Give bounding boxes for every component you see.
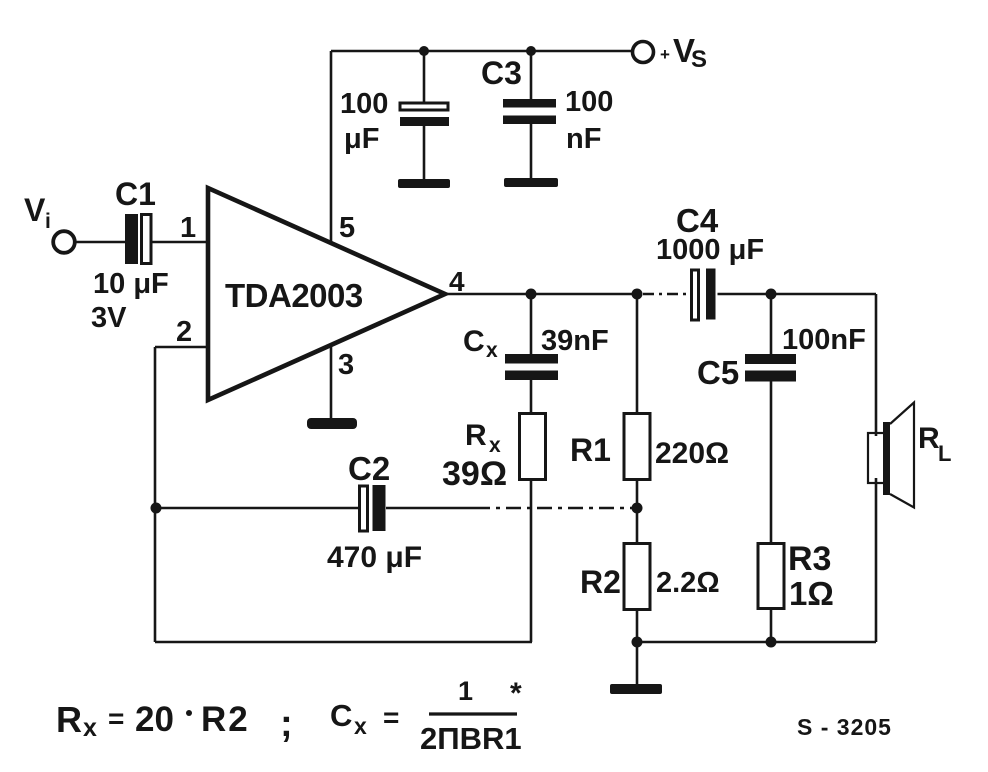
label R2 value 2.2ohm: [656, 567, 720, 599]
pin 5: [339, 212, 355, 244]
label Rx: [465, 419, 501, 457]
svg-text:R: R: [465, 419, 487, 452]
label C2 value 470uF: [327, 541, 422, 574]
wire right vertical to speaker: [875, 294, 878, 642]
node Vi input terminal: [53, 231, 75, 253]
wire dash-dot to C4: [643, 293, 689, 296]
svg-text:R2: R2: [580, 564, 621, 600]
label S-3205: [797, 714, 892, 740]
ground bar under 100uF: [398, 179, 450, 188]
wire pin 2 to left vertical: [155, 346, 207, 349]
label R3 value 1ohm: [789, 575, 834, 612]
wire Rx down to bottom: [530, 480, 533, 642]
label RL: [918, 422, 951, 466]
label C2: [348, 450, 390, 487]
label C4 value 1000uF: [656, 234, 764, 266]
pin 4: [449, 266, 465, 297]
svg-text:10 μF: 10 μF: [93, 268, 169, 300]
svg-text:220Ω: 220Ω: [655, 437, 729, 470]
svg-text:=: =: [383, 702, 399, 733]
capacitor 100uF electrolytic: [400, 51, 449, 180]
svg-text:L: L: [938, 441, 951, 466]
svg-text:;: ;: [280, 703, 293, 745]
wire input to C1: [75, 241, 125, 244]
svg-text:3V: 3V: [91, 302, 127, 334]
label R1 value 220ohm: [655, 437, 729, 470]
svg-text:2ΠBR1: 2ΠBR1: [420, 721, 522, 756]
pin 2: [176, 316, 192, 348]
label C5: [697, 354, 739, 391]
svg-text:1: 1: [458, 676, 473, 706]
op-amp U1 TDA2003 triangle: [208, 188, 445, 400]
label C1 value 10uF: [93, 268, 169, 300]
resistor R3: [758, 544, 784, 609]
junction dot bottom R3: [766, 637, 777, 648]
label Rx value 39ohm: [442, 455, 507, 493]
ground main: [610, 684, 662, 694]
svg-text:x: x: [486, 339, 498, 362]
junction dot output Cx: [526, 289, 537, 300]
formula Rx = 20 R2: [56, 699, 293, 745]
svg-text:C: C: [463, 325, 485, 358]
label R1: [570, 432, 611, 468]
wire output pin 4: [444, 293, 642, 296]
svg-text:C2: C2: [348, 450, 390, 487]
label Cx: [463, 325, 498, 362]
capacitor C1: [125, 214, 151, 264]
label Vi: [24, 192, 51, 233]
svg-text:100: 100: [340, 88, 388, 120]
label R2: [580, 564, 621, 600]
wire pin 3 down: [330, 346, 333, 419]
junction dot R1 R2 C2: [632, 503, 643, 514]
svg-text:39Ω: 39Ω: [442, 455, 507, 493]
svg-text:V: V: [24, 192, 46, 228]
svg-text:C: C: [330, 698, 352, 733]
svg-text:TDA2003: TDA2003: [225, 277, 363, 314]
junction dot output R1: [632, 289, 643, 300]
junction dot bottom R2: [632, 637, 643, 648]
wire R1 branch upper: [636, 294, 639, 414]
svg-text:100nF: 100nF: [782, 324, 866, 356]
wire left vertical feedback: [154, 347, 157, 642]
wire C2 right solid: [386, 507, 475, 510]
ground pin 3: [307, 418, 357, 429]
svg-text:R2: R2: [201, 700, 250, 739]
svg-text:μF: μF: [344, 123, 379, 155]
svg-text:100: 100: [565, 86, 613, 118]
label TDA2003: [225, 277, 363, 314]
svg-text:4: 4: [449, 266, 465, 297]
capacitor C4: [692, 269, 716, 321]
svg-text:5: 5: [339, 212, 355, 244]
svg-text:*: *: [510, 677, 522, 710]
svg-text:2.2Ω: 2.2Ω: [656, 567, 720, 599]
wire feedback to C2: [156, 507, 359, 510]
label C1 value 3V: [91, 302, 127, 334]
pin 3: [338, 349, 354, 381]
wire top supply rail: [331, 50, 633, 53]
svg-text:+: +: [660, 45, 670, 64]
speaker RL: [868, 403, 914, 508]
wire pin 5 up: [330, 51, 333, 243]
label Cx value 39nF: [541, 325, 609, 357]
junction dot top rail C100uF: [419, 46, 429, 56]
junction dot feedback left: [151, 503, 162, 514]
svg-text:R3: R3: [788, 540, 831, 578]
label R3: [788, 540, 831, 578]
capacitor C2: [360, 485, 386, 531]
label C4: [676, 202, 719, 239]
junction dot top rail C3: [526, 46, 536, 56]
wire C4 to node C5: [718, 293, 877, 296]
svg-text:=: =: [108, 703, 124, 734]
wire C1 to pin 1: [151, 241, 207, 244]
capacitor Cx: [505, 294, 558, 414]
label C3: [481, 55, 522, 91]
wire bottom left horizontal: [155, 641, 532, 644]
label 100uF value: [340, 88, 388, 155]
wire R3 down: [770, 608, 773, 642]
svg-text:3: 3: [338, 349, 354, 381]
capacitor C5: [745, 294, 796, 544]
capacitor C3: [503, 51, 556, 178]
wire ground stub: [636, 642, 639, 684]
wire bottom right horizontal: [637, 641, 876, 644]
ground bar under C3: [504, 178, 558, 187]
pin 1: [180, 212, 196, 244]
svg-text:R1: R1: [570, 432, 611, 468]
label C5 value 100nF: [782, 324, 866, 356]
resistor R1: [624, 414, 650, 480]
wire R1 to junction: [636, 479, 639, 544]
svg-text:i: i: [45, 210, 51, 233]
svg-text:x: x: [354, 713, 367, 739]
svg-text:nF: nF: [566, 123, 601, 155]
svg-text:470 μF: 470 μF: [327, 541, 422, 574]
svg-text:1Ω: 1Ω: [789, 575, 834, 612]
svg-text:S: S: [691, 46, 707, 73]
node +Vs supply terminal: [633, 42, 654, 63]
junction dot output C5: [766, 289, 777, 300]
svg-text:x: x: [83, 714, 97, 742]
resistor Rx: [520, 414, 546, 480]
svg-text:C3: C3: [481, 55, 522, 91]
wire C2 dash-dot to R junction: [475, 507, 632, 510]
svg-text:1: 1: [180, 212, 196, 244]
svg-text:R: R: [918, 422, 940, 455]
svg-text:S - 3205: S - 3205: [797, 714, 892, 740]
svg-text:39nF: 39nF: [541, 325, 609, 357]
label C3 value 100nF: [565, 86, 613, 155]
svg-text:C5: C5: [697, 354, 739, 391]
svg-text:1000 μF: 1000 μF: [656, 234, 764, 266]
label C1: [115, 176, 156, 212]
wire R2 down: [636, 609, 639, 642]
svg-text:2: 2: [176, 316, 192, 348]
formula Cx = 1/2piBR1: [330, 676, 522, 756]
svg-text:R: R: [56, 699, 82, 740]
svg-text:20: 20: [135, 700, 174, 739]
label +Vs: [660, 32, 707, 73]
resistor R2: [624, 544, 650, 610]
svg-text:C1: C1: [115, 176, 156, 212]
svg-text:x: x: [489, 434, 501, 457]
